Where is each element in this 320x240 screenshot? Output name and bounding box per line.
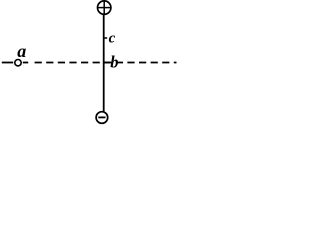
svg-text:a: a (17, 41, 26, 61)
tick at node c (104, 37, 108, 39)
wire (vertical dipole axis) (103, 14, 105, 113)
tick at node b (104, 62, 110, 64)
svg-text:b: b (110, 53, 118, 72)
positive charge symbol (98, 1, 111, 14)
negative charge symbol (96, 112, 108, 124)
dash segment left of node a (2, 62, 13, 64)
horizontal dashed line through a and b (35, 62, 177, 64)
svg-text:c: c (109, 30, 116, 46)
node a (open circle) (15, 60, 21, 66)
dash segment right of node a (23, 62, 28, 64)
